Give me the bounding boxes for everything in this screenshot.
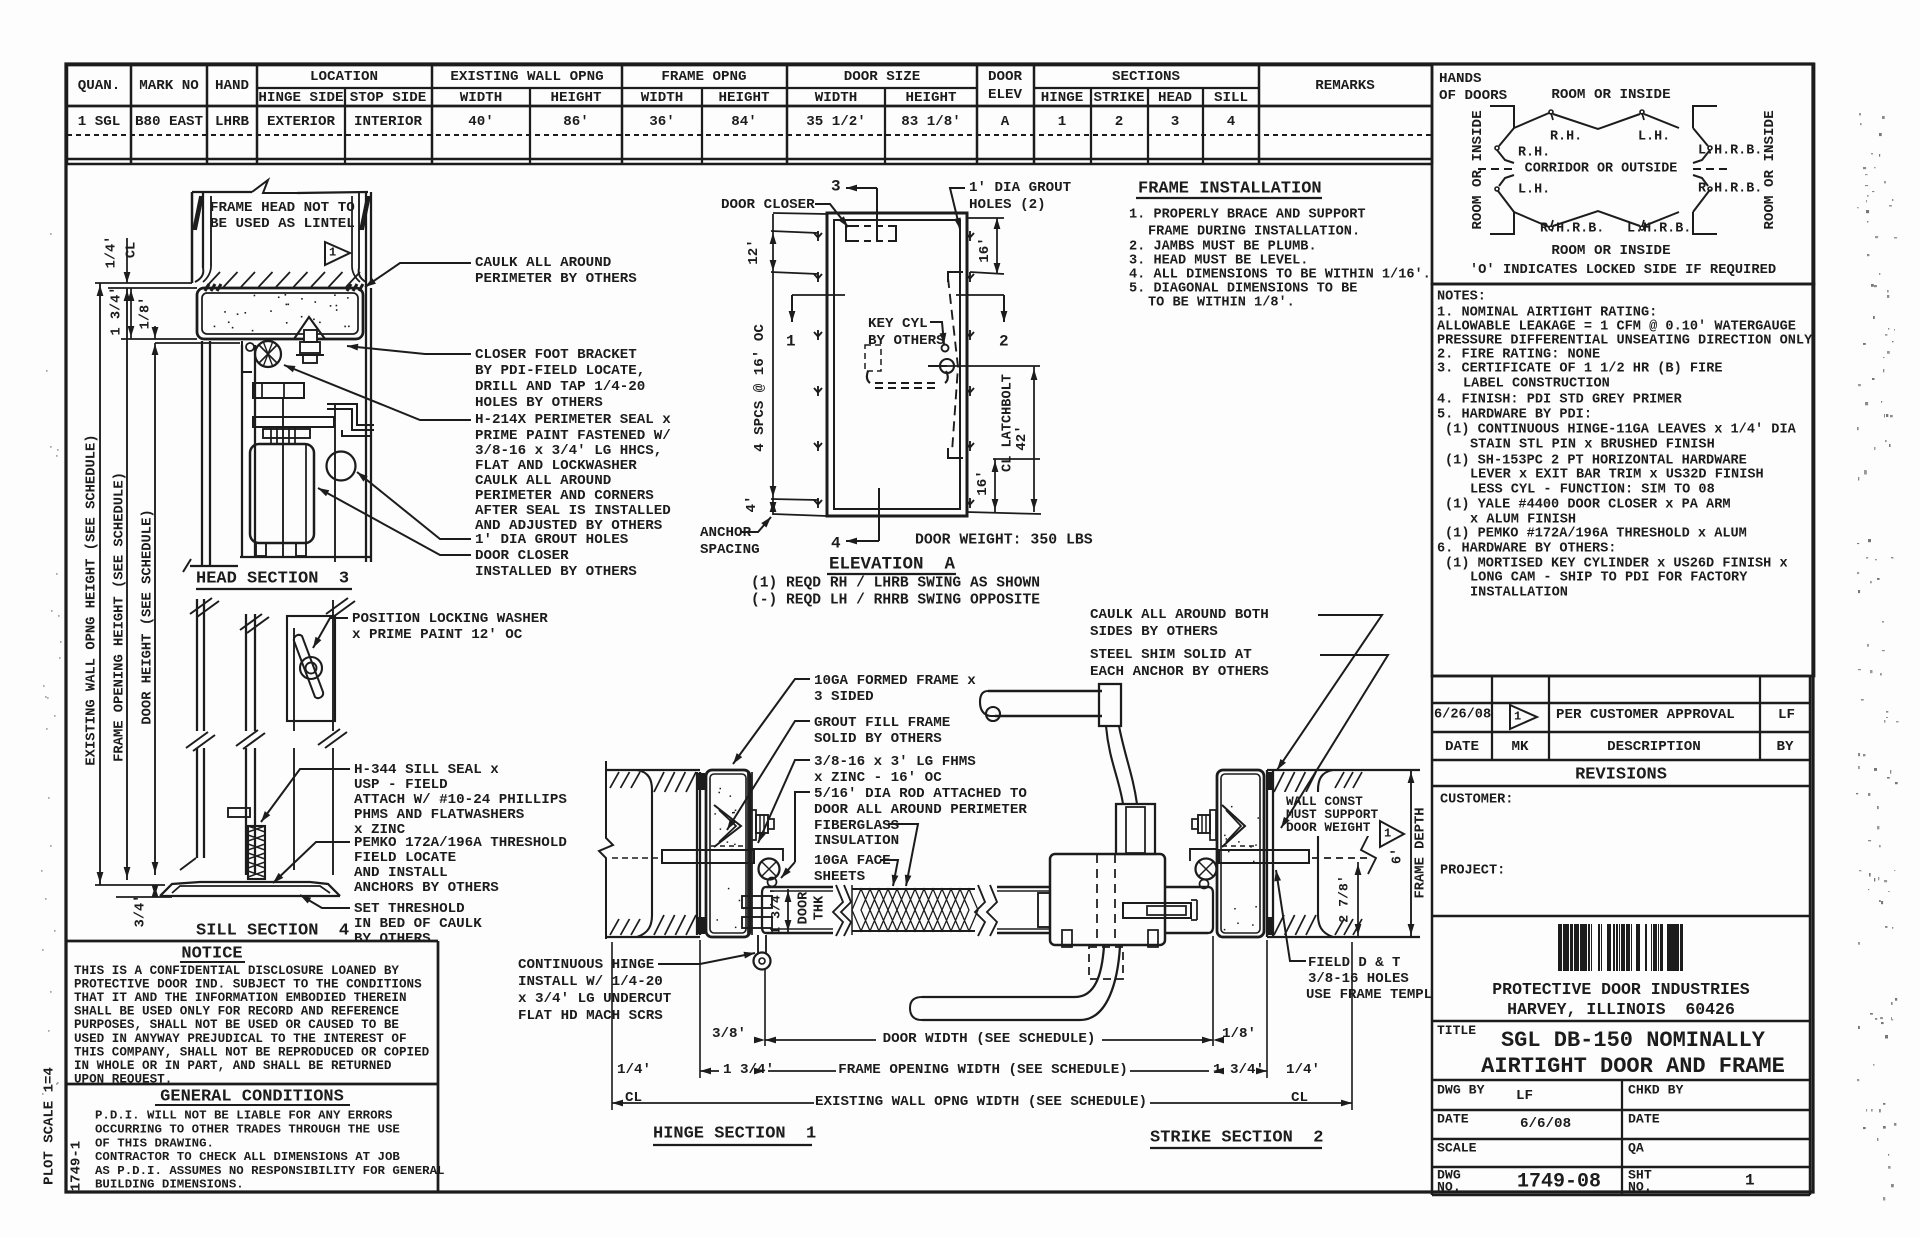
svg-text:EXISTING WALL OPNG: EXISTING WALL OPNG [450,69,603,85]
svg-text:3/8-16 HOLES: 3/8-16 HOLES [1308,971,1409,987]
svg-text:PEMKO 172A/196A THRESHOLD: PEMKO 172A/196A THRESHOLD [354,835,567,851]
svg-text:L.H.: L.H. [1518,183,1550,198]
svg-text:DOOR ALL AROUND PERIMETER: DOOR ALL AROUND PERIMETER [814,802,1027,818]
svg-text:PURPOSES, SHALL NOT BE USED OR: PURPOSES, SHALL NOT BE USED OR CAUSED TO… [74,1018,399,1032]
svg-text:OF DOORS: OF DOORS [1439,88,1508,104]
svg-text:3/8-16 x 3' LG FHMS: 3/8-16 x 3' LG FHMS [814,754,976,770]
svg-text:A: A [1001,114,1010,130]
svg-text:(1) CONTINUOUS HINGE-11GA LEAV: (1) CONTINUOUS HINGE-11GA LEAVES x 1/4' … [1445,423,1797,438]
svg-text:FIELD LOCATE: FIELD LOCATE [354,850,456,866]
svg-text:1/8': 1/8' [139,297,154,330]
svg-text:AIRTIGHT DOOR AND FRAME: AIRTIGHT DOOR AND FRAME [1481,1054,1785,1079]
svg-text:HEAD SECTION 3: HEAD SECTION 3 [196,569,349,588]
svg-text:6': 6' [1391,848,1406,864]
svg-text:BY PDI-FIELD LOCATE,: BY PDI-FIELD LOCATE, [475,363,645,379]
svg-text:CAULK ALL AROUND: CAULK ALL AROUND [475,473,611,489]
svg-text:DATE: DATE [1628,1111,1660,1126]
svg-text:16': 16' [975,470,991,496]
svg-text:3/8': 3/8' [712,1026,746,1042]
svg-text:FRAME DURING INSTALLATION.: FRAME DURING INSTALLATION. [1148,225,1360,240]
svg-text:P.D.I. WILL NOT BE LIABLE FOR: P.D.I. WILL NOT BE LIABLE FOR ANY ERRORS [95,1109,393,1123]
svg-text:SOLID BY OTHERS: SOLID BY OTHERS [814,731,942,747]
svg-text:INTERIOR: INTERIOR [354,114,423,130]
svg-text:ELEV: ELEV [988,87,1023,103]
svg-text:INSTALLED BY OTHERS: INSTALLED BY OTHERS [475,564,637,580]
svg-text:1749-1: 1749-1 [69,1141,85,1191]
svg-text:THIS IS A CONFIDENTIAL DISCLOS: THIS IS A CONFIDENTIAL DISCLOSURE LOANED… [74,964,399,978]
svg-text:HEIGHT: HEIGHT [550,90,602,106]
svg-text:SET THRESHOLD: SET THRESHOLD [354,901,465,917]
svg-text:HARVEY, ILLINOIS 60426: HARVEY, ILLINOIS 60426 [1507,1000,1735,1019]
svg-text:LABEL CONSTRUCTION: LABEL CONSTRUCTION [1463,377,1610,392]
svg-text:LHRB: LHRB [215,114,250,130]
svg-text:FRAME HEAD NOT TO: FRAME HEAD NOT TO [210,200,355,216]
svg-text:STOP SIDE: STOP SIDE [350,90,427,106]
svg-text:PROJECT:: PROJECT: [1440,864,1505,879]
svg-text:10GA FORMED FRAME x: 10GA FORMED FRAME x [814,673,976,689]
svg-text:CAULK ALL AROUND BOTH: CAULK ALL AROUND BOTH [1090,607,1269,623]
svg-text:BY OTHERS: BY OTHERS [868,333,945,349]
svg-text:UPON REQUEST.: UPON REQUEST. [74,1073,172,1087]
svg-text:3. HEAD MUST BE LEVEL.: 3. HEAD MUST BE LEVEL. [1129,254,1308,269]
svg-text:BE USED AS LINTEL: BE USED AS LINTEL [210,216,355,232]
svg-text:16': 16' [977,237,993,263]
svg-text:H-344 SILL SEAL x: H-344 SILL SEAL x [354,762,499,778]
svg-text:TO BE WITHIN 1/8'.: TO BE WITHIN 1/8'. [1148,296,1295,311]
svg-text:WIDTH: WIDTH [815,90,858,106]
svg-text:(1) PEMKO #172A/196A THRESHOLD: (1) PEMKO #172A/196A THRESHOLD x ALUM [1445,527,1747,542]
svg-text:HOLES BY OTHERS: HOLES BY OTHERS [475,395,603,411]
svg-text:1. PROPERLY BRACE AND SUPPORT: 1. PROPERLY BRACE AND SUPPORT [1129,208,1366,223]
svg-text:CONTINUOUS HINGE: CONTINUOUS HINGE [518,957,654,973]
svg-text:x 3/4' LG UNDERCUT: x 3/4' LG UNDERCUT [518,991,672,1007]
svg-text:3/8-16 x 3/4' LG HHCS,: 3/8-16 x 3/4' LG HHCS, [475,443,662,459]
svg-text:FLAT AND LOCKWASHER: FLAT AND LOCKWASHER [475,458,637,474]
svg-text:FLAT HD MACH SCRS: FLAT HD MACH SCRS [518,1008,663,1024]
svg-text:USE FRAME TEMPL: USE FRAME TEMPL [1306,987,1432,1003]
svg-text:5. DIAGONAL DIMENSIONS TO BE: 5. DIAGONAL DIMENSIONS TO BE [1129,282,1357,297]
svg-text:THAT IT AND THE INFORMATION EM: THAT IT AND THE INFORMATION EMBODIED THE… [74,991,407,1005]
svg-text:86': 86' [563,114,589,130]
svg-text:4. ALL DIMENSIONS TO BE WITHIN: 4. ALL DIMENSIONS TO BE WITHIN 1/16'. [1129,268,1431,283]
svg-text:LF: LF [1778,707,1795,723]
svg-text:3. CERTIFICATE OF 1 1/2 HR (B): 3. CERTIFICATE OF 1 1/2 HR (B) FIRE [1437,362,1723,377]
svg-text:REMARKS: REMARKS [1315,78,1375,94]
svg-text:PROTECTIVE DOOR INDUSTRIES: PROTECTIVE DOOR INDUSTRIES [1492,980,1750,999]
svg-text:6. HARDWARE BY OTHERS:: 6. HARDWARE BY OTHERS: [1437,542,1616,557]
svg-text:EXISTING WALL OPNG HEIGHT (SEE: EXISTING WALL OPNG HEIGHT (SEE SCHEDULE) [84,434,100,765]
svg-text:ALLOWABLE LEAKAGE = 1 CFM @ 0.: ALLOWABLE LEAKAGE = 1 CFM @ 0.10' WATERG… [1437,320,1796,335]
svg-text:SIDES BY OTHERS: SIDES BY OTHERS [1090,624,1218,640]
svg-text:4: 4 [1227,114,1236,130]
svg-text:ANCHORS BY OTHERS: ANCHORS BY OTHERS [354,880,499,896]
svg-text:HINGE SECTION 1: HINGE SECTION 1 [653,1124,816,1143]
svg-text:IN WHOLE OR IN PART, AND SHALL: IN WHOLE OR IN PART, AND SHALL BE RETURN… [74,1059,392,1073]
svg-text:DOOR: DOOR [797,891,812,924]
svg-text:2: 2 [999,333,1009,351]
svg-text:EXTERIOR: EXTERIOR [267,114,336,130]
svg-text:1: 1 [1058,114,1067,130]
svg-text:4 SPCS @ 16' OC: 4 SPCS @ 16' OC [752,324,768,452]
svg-text:HEIGHT: HEIGHT [905,90,957,106]
svg-text:DOOR WEIGHT: 350 LBS: DOOR WEIGHT: 350 LBS [915,533,1093,549]
svg-text:4': 4' [744,495,760,512]
svg-text:PERIMETER AND CORNERS: PERIMETER AND CORNERS [475,488,654,504]
svg-text:FIBERGLASS: FIBERGLASS [814,818,900,834]
svg-text:GROUT FILL FRAME: GROUT FILL FRAME [814,715,950,731]
svg-text:CL: CL [625,1090,642,1106]
svg-text:84': 84' [731,114,757,130]
svg-text:LOCATION: LOCATION [310,69,378,85]
svg-text:1' DIA GROUT: 1' DIA GROUT [969,180,1072,196]
svg-text:AND INSTALL: AND INSTALL [354,865,448,881]
svg-text:'O' INDICATES LOCKED SIDE IF R: 'O' INDICATES LOCKED SIDE IF REQUIRED [1470,262,1776,278]
svg-text:STRIKE: STRIKE [1093,90,1144,106]
svg-text:BY OTHERS: BY OTHERS [354,931,431,947]
svg-text:FRAME OPNG: FRAME OPNG [661,69,746,85]
svg-text:ATTACH W/ #10-24 PHILLIPS: ATTACH W/ #10-24 PHILLIPS [354,792,567,808]
svg-text:REVISIONS: REVISIONS [1575,765,1667,784]
svg-text:SCALE: SCALE [1437,1140,1477,1155]
svg-text:OF THIS DRAWING.: OF THIS DRAWING. [95,1136,214,1150]
svg-text:INSTALL W/ 1/4-20: INSTALL W/ 1/4-20 [518,974,663,990]
svg-text:HOLES (2): HOLES (2) [969,197,1046,213]
svg-text:1 3/4': 1 3/4' [768,887,783,934]
svg-text:AS P.D.I. ASSUMES NO RESPONSIB: AS P.D.I. ASSUMES NO RESPONSIBILITY FOR … [95,1164,444,1178]
svg-text:x ALUM FINISH: x ALUM FINISH [1470,513,1576,528]
svg-text:R.H.: R.H. [1550,130,1582,145]
svg-text:TITLE: TITLE [1437,1023,1476,1038]
svg-text:35 1/2': 35 1/2' [806,114,866,130]
svg-text:R.H.R.B.: R.H.R.B. [1540,222,1604,237]
svg-text:EXISTING WALL OPNG WIDTH (SEE: EXISTING WALL OPNG WIDTH (SEE SCHEDULE) [815,1094,1147,1110]
svg-text:1: 1 [1745,1172,1755,1190]
svg-text:OCCURRING TO OTHER TRADES THRO: OCCURRING TO OTHER TRADES THROUGH THE US… [95,1123,400,1137]
svg-text:GENERAL CONDITIONS: GENERAL CONDITIONS [160,1087,344,1106]
svg-text:BY: BY [1776,739,1794,755]
svg-text:1749-08: 1749-08 [1517,1171,1601,1194]
svg-text:WIDTH: WIDTH [460,90,503,106]
svg-text:1: 1 [1384,826,1391,840]
svg-text:1/4': 1/4' [105,236,120,269]
svg-text:(-) REQD LH / RHRB SWING OPPOS: (-) REQD LH / RHRB SWING OPPOSITE [751,592,1040,608]
svg-text:40': 40' [468,114,494,130]
svg-text:L.H.R.B.: L.H.R.B. [1627,222,1691,237]
svg-text:THIS COMPANY, SHALL NOT BE REP: THIS COMPANY, SHALL NOT BE REPRODUCED OR… [74,1045,430,1059]
svg-text:DOOR CLOSER: DOOR CLOSER [721,197,815,213]
svg-text:SILL: SILL [1214,90,1248,106]
svg-text:DOOR WIDTH (SEE SCHEDULE): DOOR WIDTH (SEE SCHEDULE) [883,1031,1096,1047]
svg-text:QA: QA [1628,1140,1644,1155]
svg-text:2: 2 [1115,114,1124,130]
svg-text:83 1/8': 83 1/8' [901,114,961,130]
svg-text:PERIMETER BY OTHERS: PERIMETER BY OTHERS [475,271,637,287]
svg-text:USED IN ANYWAY PREJUDICAL TO T: USED IN ANYWAY PREJUDICAL TO THE INTERES… [74,1032,407,1046]
svg-text:ROOM OR INSIDE: ROOM OR INSIDE [1762,110,1778,229]
svg-text:1' DIA GROUT HOLES: 1' DIA GROUT HOLES [475,532,629,548]
svg-text:1 SGL: 1 SGL [78,114,121,130]
svg-text:2. FIRE RATING: NONE: 2. FIRE RATING: NONE [1437,348,1600,363]
svg-text:L.H.R.B.: L.H.R.B. [1698,144,1762,159]
svg-text:DATE: DATE [1445,739,1479,755]
svg-text:LF: LF [1516,1088,1533,1104]
svg-text:CL: CL [125,242,140,258]
svg-text:x ZINC - 16' OC: x ZINC - 16' OC [814,770,942,786]
svg-text:DOOR: DOOR [988,69,1023,85]
svg-text:10GA FACE: 10GA FACE [814,853,891,869]
svg-text:WIDTH: WIDTH [641,90,684,106]
svg-text:DESCRIPTION: DESCRIPTION [1607,739,1701,755]
svg-text:4. FINISH: PDI STD GREY PRIMER: 4. FINISH: PDI STD GREY PRIMER [1437,393,1683,408]
svg-text:DOOR SIZE: DOOR SIZE [844,69,921,85]
svg-text:STEEL SHIM SOLID AT: STEEL SHIM SOLID AT [1090,647,1252,663]
svg-text:AFTER SEAL IS INSTALLED: AFTER SEAL IS INSTALLED [475,503,671,519]
svg-text:LONG CAM - SHIP TO PDI FOR FAC: LONG CAM - SHIP TO PDI FOR FACTORY [1470,571,1748,586]
svg-text:CLOSER FOOT BRACKET: CLOSER FOOT BRACKET [475,347,637,363]
svg-text:CL: CL [1291,1090,1308,1106]
svg-text:36': 36' [649,114,675,130]
svg-text:(1) SH-153PC 2 PT HORIZONTAL H: (1) SH-153PC 2 PT HORIZONTAL HARDWARE [1445,454,1747,469]
svg-text:2 7/8': 2 7/8' [1336,875,1351,922]
svg-text:CUSTOMER:: CUSTOMER: [1440,793,1513,808]
svg-text:12': 12' [746,239,762,265]
svg-text:CAULK ALL AROUND: CAULK ALL AROUND [475,255,611,271]
svg-text:PRESSURE DIFFERENTIAL UNSEATIN: PRESSURE DIFFERENTIAL UNSEATING DIRECTIO… [1437,334,1813,349]
svg-text:6/6/08: 6/6/08 [1520,1116,1571,1132]
svg-text:1/4': 1/4' [1286,1062,1320,1078]
svg-text:H-214X PERIMETER SEAL x: H-214X PERIMETER SEAL x [475,412,671,428]
svg-text:NO.: NO. [1437,1179,1461,1194]
svg-text:USP - FIELD: USP - FIELD [354,777,448,793]
svg-text:DOOR WEIGHT: DOOR WEIGHT [1286,820,1371,835]
svg-text:ROOM OR INSIDE: ROOM OR INSIDE [1551,87,1670,103]
svg-text:FIELD D & T: FIELD D & T [1308,955,1400,971]
svg-text:5/16' DIA ROD ATTACHED TO: 5/16' DIA ROD ATTACHED TO [814,786,1027,802]
svg-text:LESS CYL - FUNCTION: SIM TO 08: LESS CYL - FUNCTION: SIM TO 08 [1470,483,1715,498]
svg-text:(1) REQD RH / LHRB SWING AS SH: (1) REQD RH / LHRB SWING AS SHOWN [751,575,1040,591]
svg-text:MARK NO: MARK NO [139,78,199,94]
svg-text:HANDS: HANDS [1439,71,1482,87]
svg-text:PHMS AND FLATWASHERS: PHMS AND FLATWASHERS [354,807,525,823]
svg-text:1. NOMINAL AIRTIGHT RATING:: 1. NOMINAL AIRTIGHT RATING: [1437,306,1657,321]
svg-text:SECTIONS: SECTIONS [1112,69,1181,85]
svg-text:POSITION LOCKING WASHER: POSITION LOCKING WASHER [352,611,548,627]
svg-text:SPACING: SPACING [700,542,760,558]
svg-text:SGL DB-150 NOMINALLY: SGL DB-150 NOMINALLY [1501,1028,1766,1053]
svg-text:x PRIME PAINT 12' OC: x PRIME PAINT 12' OC [352,627,523,643]
svg-text:IN BED OF CAULK: IN BED OF CAULK [354,916,482,932]
svg-text:STAIN STL PIN x BRUSHED FINISH: STAIN STL PIN x BRUSHED FINISH [1470,438,1715,453]
svg-text:(1) YALE #4400 DOOR CLOSER x P: (1) YALE #4400 DOOR CLOSER x PA ARM [1445,498,1731,513]
svg-text:FRAME DEPTH: FRAME DEPTH [1414,807,1429,898]
svg-text:NOTES:: NOTES: [1437,290,1486,305]
svg-text:B80 EAST: B80 EAST [135,114,204,130]
svg-text:PLOT SCALE 1=4: PLOT SCALE 1=4 [42,1067,58,1185]
svg-text:1/8': 1/8' [1222,1026,1256,1042]
svg-text:NOTICE: NOTICE [181,944,242,963]
svg-text:1: 1 [1514,709,1521,723]
svg-text:MK: MK [1511,739,1529,755]
svg-text:4: 4 [831,535,841,553]
svg-text:PER CUSTOMER APPROVAL: PER CUSTOMER APPROVAL [1556,707,1735,723]
svg-text:SHEETS: SHEETS [814,869,866,885]
svg-text:HEAD: HEAD [1158,90,1192,106]
svg-text:LEVER x EXIT BAR TRIM x US32D: LEVER x EXIT BAR TRIM x US32D FINISH [1470,468,1764,483]
svg-text:1: 1 [329,245,336,259]
svg-text:L.H.: L.H. [1638,130,1670,145]
svg-text:HAND: HAND [215,78,249,94]
svg-text:1 3/4': 1 3/4' [1213,1062,1264,1078]
svg-text:CONTRACTOR TO CHECK ALL DIMENS: CONTRACTOR TO CHECK ALL DIMENSIONS AT JO… [95,1150,400,1164]
svg-text:DRILL AND TAP 1/4-20: DRILL AND TAP 1/4-20 [475,379,645,395]
svg-text:DOOR HEIGHT (SEE SCHEDULE): DOOR HEIGHT (SEE SCHEDULE) [140,509,156,724]
svg-text:2. JAMBS MUST BE PLUMB.: 2. JAMBS MUST BE PLUMB. [1129,240,1317,255]
svg-text:INSTALLATION: INSTALLATION [1470,586,1568,601]
svg-text:DWG BY: DWG BY [1437,1082,1485,1097]
svg-text:1: 1 [786,333,796,351]
svg-text:ROOM OR INSIDE: ROOM OR INSIDE [1551,243,1670,259]
svg-text:HINGE: HINGE [1041,90,1084,106]
svg-text:BUILDING DIMENSIONS.: BUILDING DIMENSIONS. [95,1178,244,1192]
svg-text:3 SIDED: 3 SIDED [814,689,874,705]
svg-text:KEY CYL: KEY CYL [868,316,928,332]
svg-text:FRAME INSTALLATION: FRAME INSTALLATION [1138,179,1322,198]
svg-text:CL LATCHBOLT: CL LATCHBOLT [1001,374,1016,472]
svg-text:1 3/4': 1 3/4' [723,1062,774,1078]
svg-text:42': 42' [1014,425,1030,451]
svg-text:R.H.R.B.: R.H.R.B. [1698,182,1762,197]
svg-text:PROTECTIVE DOOR IND. SUBJECT T: PROTECTIVE DOOR IND. SUBJECT TO THE COND… [74,977,422,991]
svg-text:ANCHOR: ANCHOR [700,525,752,541]
svg-text:1 3/4': 1 3/4' [110,287,125,336]
svg-text:NO.: NO. [1628,1179,1652,1194]
svg-text:3: 3 [1171,114,1180,130]
svg-text:DATE: DATE [1437,1111,1469,1126]
svg-text:3: 3 [831,178,841,196]
svg-text:5. HARDWARE BY PDI:: 5. HARDWARE BY PDI: [1437,408,1592,423]
svg-text:ELEVATION A: ELEVATION A [829,555,956,575]
svg-text:HEIGHT: HEIGHT [718,90,770,106]
svg-text:(1) MORTISED KEY CYLINDER x US: (1) MORTISED KEY CYLINDER x US26D FINISH… [1445,557,1788,572]
svg-text:HINGE SIDE: HINGE SIDE [258,90,343,106]
svg-text:DOOR CLOSER: DOOR CLOSER [475,548,569,564]
svg-text:SILL SECTION 4: SILL SECTION 4 [196,921,349,940]
svg-text:PRIME PAINT FASTENED W/: PRIME PAINT FASTENED W/ [475,428,671,444]
svg-text:CHKD BY: CHKD BY [1628,1082,1683,1097]
svg-text:3/4': 3/4' [134,895,149,928]
svg-text:1/4': 1/4' [617,1062,651,1078]
svg-text:INSULATION: INSULATION [814,833,899,849]
svg-text:FRAME OPENING WIDTH (SEE SCHED: FRAME OPENING WIDTH (SEE SCHEDULE) [838,1062,1127,1078]
svg-text:FRAME OPENING HEIGHT (SEE SCHE: FRAME OPENING HEIGHT (SEE SCHEDULE) [112,472,128,762]
svg-text:STRIKE SECTION 2: STRIKE SECTION 2 [1150,1128,1323,1147]
svg-text:CORRIDOR OR OUTSIDE: CORRIDOR OR OUTSIDE [1525,162,1678,177]
svg-text:6/26/08: 6/26/08 [1434,708,1491,723]
svg-text:SHALL BE USED ONLY FOR RECORD: SHALL BE USED ONLY FOR RECORD AND REFERE… [74,1005,399,1019]
svg-text:R.H.: R.H. [1518,146,1550,161]
svg-text:EACH ANCHOR BY OTHERS: EACH ANCHOR BY OTHERS [1090,664,1269,680]
svg-text:QUAN.: QUAN. [78,78,121,94]
svg-text:THK: THK [813,895,828,920]
